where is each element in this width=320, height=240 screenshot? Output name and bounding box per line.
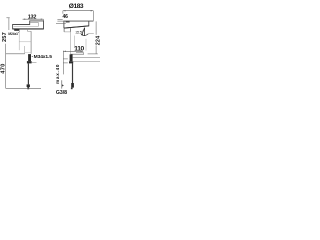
base right edge: [83, 53, 85, 55]
cartridge seam dark bar: [66, 21, 70, 23]
base seam: [25, 51, 31, 53]
svg-text:M24x1: M24x1: [8, 32, 18, 36]
svg-text:G3/8: G3/8: [56, 90, 67, 96]
aerator side view: [64, 28, 70, 32]
mounting surface right view: [71, 53, 85, 55]
body back line: [85, 39, 87, 51]
svg-text:M34x1.5: M34x1.5: [34, 54, 53, 60]
dimension D183 arrowheads: [63, 10, 93, 11]
body inner line below aerator: [18, 32, 20, 51]
counter underside line right view: [73, 61, 101, 63]
counter top line right view: [73, 56, 101, 58]
dimension 110 line: [63, 50, 83, 52]
svg-text:224: 224: [96, 36, 100, 46]
mounting nut right view: [69, 61, 73, 63]
internal tick in body: [19, 41, 31, 43]
angle symbol arc: [81, 34, 88, 36]
hose end level extension line: [6, 87, 41, 89]
D183 right extension: [92, 11, 94, 21]
body front line (from aerator): [70, 32, 72, 54]
hose end fitting: [27, 84, 30, 87]
dimension 132 line: [23, 18, 44, 20]
inner seam line of spout: [14, 25, 39, 27]
dimension D183 line: [63, 10, 93, 12]
dimension 257 top tick: [6, 17, 9, 19]
angle symbol tail: [88, 33, 94, 35]
dimension 132 arrowheads: [23, 19, 44, 20]
hose end tip right view: [71, 88, 73, 90]
spout block side view: [64, 21, 94, 28]
hose end fitting right view: [71, 83, 74, 88]
D183 left extension: [62, 11, 64, 14]
leader arrow M34x1.5: [31, 56, 33, 57]
leader arrow to aerator: [18, 31, 20, 33]
angle symbol rays: [82, 28, 85, 36]
mounting surface extension line: [6, 53, 25, 55]
threaded shank (dark): [28, 54, 31, 61]
body mid line: [73, 36, 75, 48]
svg-text:max.40: max.40: [55, 64, 60, 84]
svg-text:132: 132: [28, 15, 37, 21]
mounting nut (dark, wider): [27, 61, 32, 63]
svg-text:46: 46: [63, 14, 69, 20]
counter underside line left view: [32, 61, 37, 63]
G3/8 leader line: [61, 80, 63, 88]
svg-text:Ø183: Ø183: [69, 3, 84, 10]
aerator (dark): [14, 29, 19, 31]
dimension 470 line: [5, 44, 7, 89]
supply hose left view: [27, 63, 29, 84]
dimension max40 line: [62, 51, 64, 75]
threaded shank right view (dark): [70, 54, 73, 61]
base top edge right view: [76, 52, 84, 54]
max40 ticks: [63, 58, 68, 60]
dimension 110 arrowheads: [63, 51, 83, 52]
svg-text:257: 257: [2, 32, 8, 42]
faucet head outline (spout + lever block): [13, 21, 44, 29]
inner slot of lever block: [30, 23, 39, 27]
spout block bottom edge dark: [64, 26, 89, 28]
neck step under spout: [28, 29, 32, 31]
head bottom edge darker: [13, 28, 44, 30]
G3/8 leader arrowhead: [62, 84, 64, 86]
aerator bottom edge: [64, 31, 70, 33]
supply hose right view: [72, 63, 74, 83]
body left line near base: [24, 46, 26, 54]
body column right line: [30, 31, 32, 54]
dimension 46 mid tick: [57, 20, 64, 22]
dimension 46 leader: [56, 22, 66, 24]
svg-text:470: 470: [1, 63, 7, 74]
dimension 224 bottom tick: [88, 53, 98, 55]
dimension 132 right extension: [42, 19, 44, 21]
dimension 257 line upper part: [8, 18, 10, 30]
hose end tip: [27, 87, 29, 89]
angle symbol arrowhead: [81, 34, 83, 36]
dimension 224 line: [95, 21, 97, 34]
dimension 46 upper tick: [57, 18, 62, 20]
